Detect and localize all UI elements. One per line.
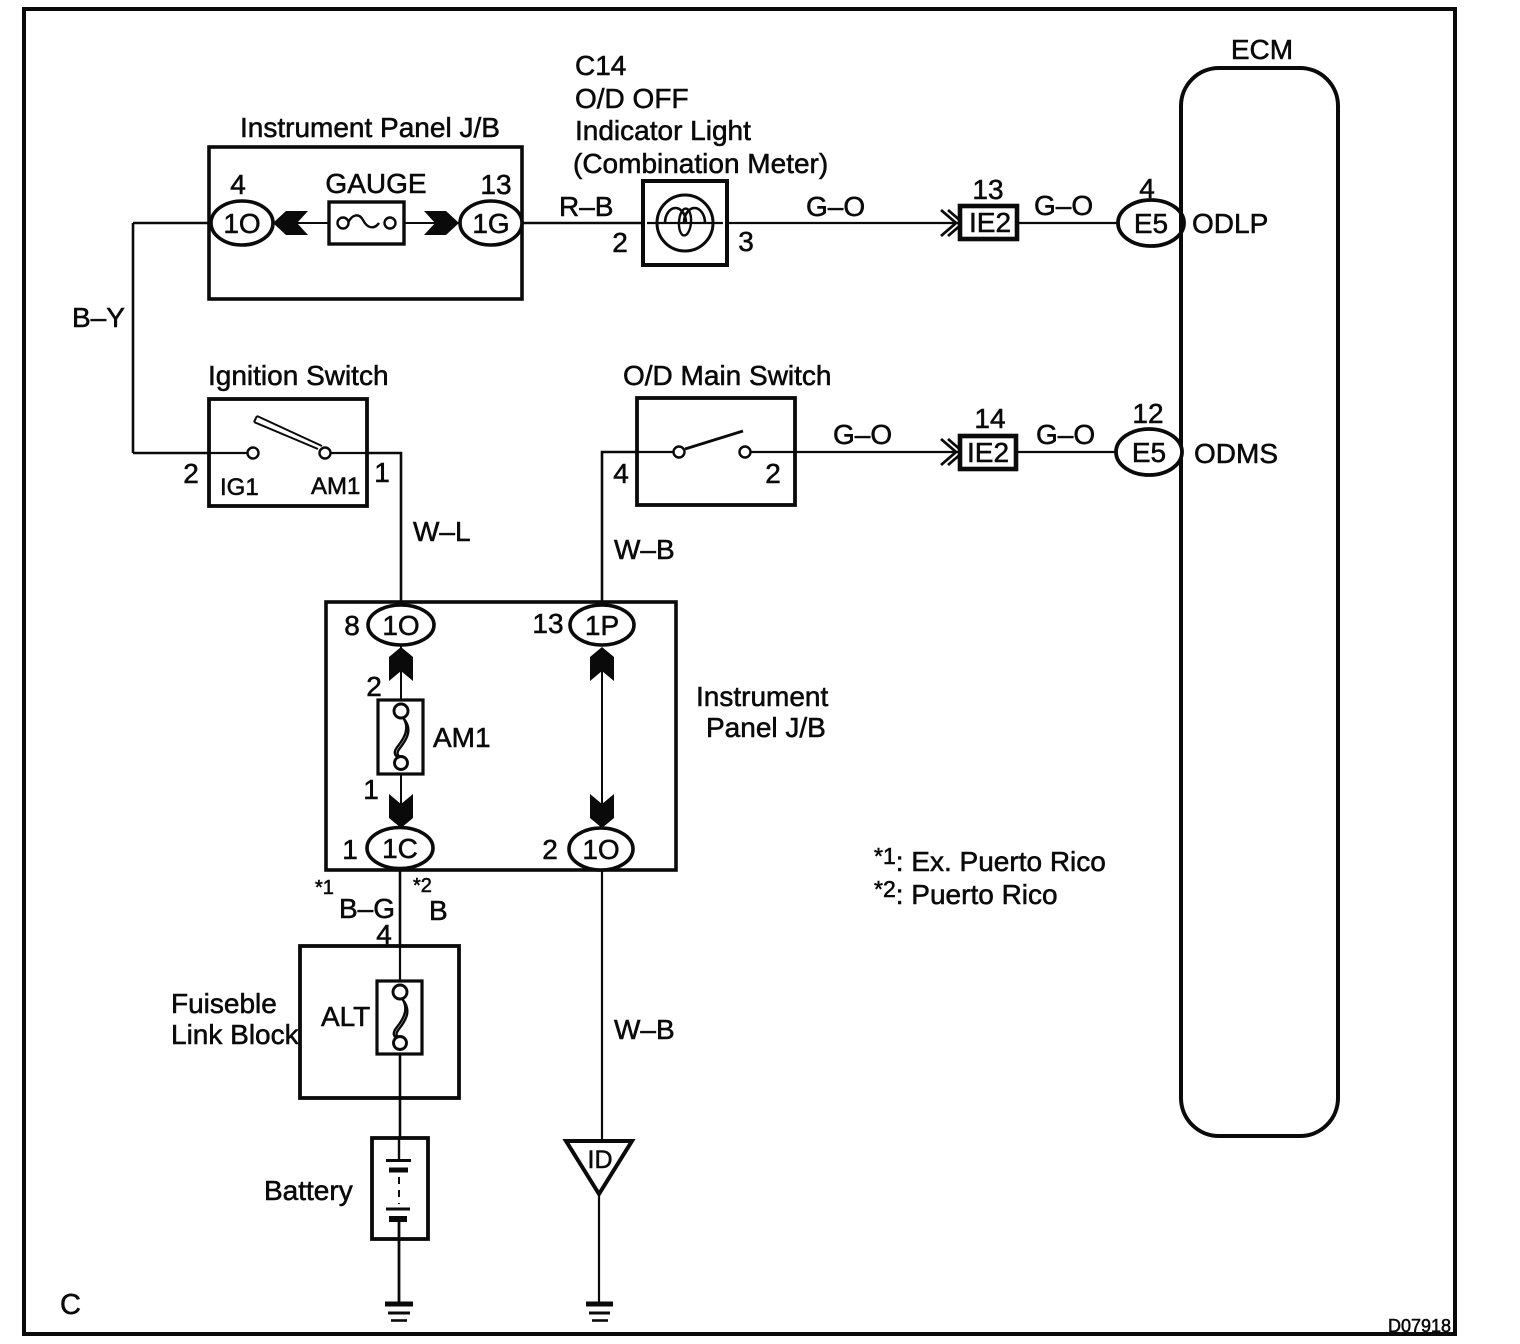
connector 1O (top J/B) xyxy=(211,201,273,245)
svg-text:Instrument Panel J/B: Instrument Panel J/B xyxy=(240,112,500,143)
wire 1G to indicator light R-B xyxy=(522,222,643,225)
svg-text:1O: 1O xyxy=(582,834,619,865)
arrow chevrons into IE2 (row1) xyxy=(941,210,963,236)
svg-text:2: 2 xyxy=(183,458,199,489)
connector E5 (ODMS) xyxy=(1116,429,1182,475)
wire from pin 2 contact xyxy=(751,451,795,453)
fuse ALT xyxy=(377,981,422,1054)
connector 1P (center J/B top-right) xyxy=(570,605,634,645)
connector 1G (top J/B) xyxy=(460,201,522,245)
svg-text:W–B: W–B xyxy=(614,534,675,565)
wire left column inside J/B xyxy=(400,645,402,711)
svg-text:B: B xyxy=(429,895,448,926)
svg-text:13: 13 xyxy=(480,169,511,200)
svg-text:2: 2 xyxy=(542,834,558,865)
instrument panel J/B (top) box xyxy=(209,147,522,299)
O/D main switch box xyxy=(637,398,795,505)
connector 1O (center J/B bottom-right) xyxy=(569,828,633,870)
connector 1C (center J/B bottom-left) xyxy=(367,828,433,869)
svg-text:E5: E5 xyxy=(1132,437,1166,468)
svg-text:Instrument: Instrument xyxy=(696,681,828,712)
arrow right (to 1G) xyxy=(424,211,459,235)
wire O/D switch to IE2 G-O (row2) xyxy=(795,451,958,453)
svg-text:*2: Puerto Rico: *2: Puerto Rico xyxy=(874,876,1058,910)
svg-text:D07918: D07918 xyxy=(1388,1316,1451,1336)
wire below ALT fuse xyxy=(399,1043,402,1139)
wire B-Y to ignition switch xyxy=(133,452,211,455)
wire lamp to IE2 G-O xyxy=(727,222,958,224)
contact right (O/D switch) xyxy=(740,447,751,458)
svg-text:8: 8 xyxy=(344,610,360,641)
svg-text:12: 12 xyxy=(1132,398,1163,429)
label Instrument Panel J/B (center) xyxy=(696,681,828,743)
svg-text:2: 2 xyxy=(765,458,781,489)
svg-text:Battery: Battery xyxy=(264,1175,353,1206)
svg-text:13: 13 xyxy=(972,174,1003,205)
battery box xyxy=(372,1138,428,1239)
svg-text:Ignition Switch: Ignition Switch xyxy=(208,360,389,391)
svg-text:G–O: G–O xyxy=(806,191,865,222)
connector 1O (center J/B top-left) xyxy=(368,605,434,645)
svg-text:1: 1 xyxy=(363,774,379,805)
wire battery to ground xyxy=(398,1239,401,1303)
wire W-B upper corner xyxy=(602,452,637,606)
svg-text:4: 4 xyxy=(230,169,246,200)
arrow up (below 1P) xyxy=(590,647,614,681)
svg-text:O/D Main Switch: O/D Main Switch xyxy=(623,360,832,391)
svg-text:Indicator Light: Indicator Light xyxy=(575,115,751,146)
svg-text:B–Y: B–Y xyxy=(72,302,125,333)
svg-text:G–O: G–O xyxy=(1036,419,1095,450)
arrow down (above 1C) xyxy=(389,794,413,828)
contact left (O/D switch) xyxy=(674,447,685,458)
arrow left (to 1O) xyxy=(273,211,308,235)
svg-text:*1: *1 xyxy=(315,877,334,899)
wire IE2 to E5 G-O (row1) xyxy=(1017,222,1119,224)
svg-text:1P: 1P xyxy=(585,610,619,641)
svg-text:C14: C14 xyxy=(575,50,626,81)
arrow up (below 1O) xyxy=(389,647,413,681)
svg-text:IE2: IE2 xyxy=(969,207,1011,238)
ground (ID) xyxy=(586,1304,613,1321)
label Fuiseble Link Block xyxy=(171,988,300,1050)
svg-text:AM1: AM1 xyxy=(433,722,491,753)
svg-text:ODLP: ODLP xyxy=(1192,208,1268,239)
svg-text:ALT: ALT xyxy=(321,1001,370,1032)
connector E5 (ODLP) xyxy=(1118,200,1184,246)
svg-text:C: C xyxy=(60,1289,81,1321)
ignition switch box xyxy=(209,399,367,506)
svg-text:W–L: W–L xyxy=(413,516,471,547)
label C14 block xyxy=(573,50,828,179)
junction connector IE2 (row2) xyxy=(960,436,1016,469)
svg-text:Fuiseble: Fuiseble xyxy=(171,988,277,1019)
svg-text:IG1: IG1 xyxy=(220,474,259,501)
svg-text:1G: 1G xyxy=(472,208,509,239)
wire B-Y horizontal top xyxy=(133,222,213,225)
svg-text:ID: ID xyxy=(588,1146,613,1174)
wire from AM1 contact xyxy=(331,452,367,454)
svg-text:1O: 1O xyxy=(382,610,419,641)
svg-text:*2: *2 xyxy=(413,875,432,897)
svg-text:AM1: AM1 xyxy=(311,473,360,500)
svg-text:GAUGE: GAUGE xyxy=(325,168,426,199)
svg-text:2: 2 xyxy=(612,227,628,258)
wire through fusible link block xyxy=(399,946,401,992)
svg-text:IE2: IE2 xyxy=(967,437,1009,468)
fusible link block box xyxy=(300,946,459,1098)
connector ID triangle xyxy=(566,1141,632,1194)
svg-text:O/D OFF: O/D OFF xyxy=(575,83,689,114)
svg-text:Link Block: Link Block xyxy=(171,1019,300,1050)
svg-text:Panel J/B: Panel J/B xyxy=(706,712,826,743)
contact AM1 xyxy=(320,448,331,459)
fuse GAUGE xyxy=(329,202,404,244)
wire left column lower inside J/B xyxy=(400,763,402,828)
svg-text:G–O: G–O xyxy=(1034,190,1093,221)
wire B-Y vertical xyxy=(132,223,135,453)
svg-text:3: 3 xyxy=(738,226,754,257)
wire into pin 4 contact xyxy=(637,451,673,453)
svg-text:ECM: ECM xyxy=(1231,34,1293,65)
ground (battery) xyxy=(385,1304,413,1321)
svg-text:13: 13 xyxy=(532,608,563,639)
O/D OFF indicator light C14 xyxy=(643,181,727,265)
battery cell symbol xyxy=(386,1138,411,1239)
contact IG1 xyxy=(248,448,259,459)
wire into IG1 contact xyxy=(209,452,247,454)
wire IE2 to E5 G-O (row2) xyxy=(1016,451,1116,453)
wire inside top J/B xyxy=(242,222,491,224)
svg-text:R–B: R–B xyxy=(559,191,613,222)
wire 1C to fusible link block xyxy=(399,869,402,948)
ignition switch lever xyxy=(254,416,322,449)
svg-text:(Combination Meter): (Combination Meter) xyxy=(573,148,828,179)
wire 1O to ID W-B xyxy=(601,870,603,1141)
svg-text:*1: Ex. Puerto Rico: *1: Ex. Puerto Rico xyxy=(874,843,1106,877)
arrow down (above 1O bottom-right) xyxy=(590,794,614,828)
svg-text:W–B: W–B xyxy=(614,1014,675,1045)
ECM block xyxy=(1181,68,1338,1136)
arrow chevrons into IE2 (row2) xyxy=(941,439,963,465)
svg-text:2: 2 xyxy=(366,671,382,702)
svg-text:1: 1 xyxy=(374,457,390,488)
wire ID to ground xyxy=(598,1194,600,1303)
svg-text:ODMS: ODMS xyxy=(1194,438,1278,469)
svg-text:4: 4 xyxy=(613,458,629,489)
svg-text:1O: 1O xyxy=(223,208,260,239)
svg-text:1: 1 xyxy=(342,834,358,865)
svg-text:E5: E5 xyxy=(1134,208,1168,239)
fuse AM1 xyxy=(378,700,423,774)
wire W-L corner xyxy=(367,453,401,606)
wire right column inside J/B xyxy=(601,668,603,808)
svg-text:1C: 1C xyxy=(382,833,418,864)
svg-text:14: 14 xyxy=(974,403,1005,434)
instrument panel J/B (center) box xyxy=(326,602,676,870)
junction connector IE2 (row1) xyxy=(960,206,1017,239)
O/D switch lever xyxy=(685,431,743,449)
svg-text:G–O: G–O xyxy=(833,419,892,450)
